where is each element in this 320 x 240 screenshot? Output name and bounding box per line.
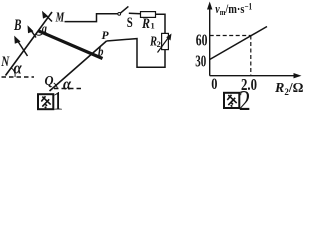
angle alpha at N: label <box>14 59 23 78</box>
graph y-axis <box>207 2 212 76</box>
label S <box>127 15 133 31</box>
rheostat R2 arrow <box>158 34 172 53</box>
rail MN (inclined rail) <box>6 12 53 76</box>
wire from M to switch <box>65 14 118 22</box>
wire R1 to right corner and down <box>156 14 166 33</box>
svg-text:2: 2 <box>239 85 251 111</box>
svg-text:P: P <box>102 29 110 42</box>
B field arrow 3 <box>42 11 52 22</box>
x tick label 2.0 <box>241 75 257 94</box>
angle alpha at N: arc <box>11 68 15 77</box>
svg-text:R: R <box>141 16 150 32</box>
svg-text:α: α <box>63 74 72 93</box>
angle alpha at Q: label <box>63 74 72 93</box>
svg-text:30: 30 <box>195 52 206 71</box>
label b (rod end on rail PQ) <box>98 44 104 59</box>
wire switch to R1 <box>129 12 141 15</box>
B field arrow 1 <box>14 36 27 56</box>
graph line v vs R2 <box>210 27 267 60</box>
y tick label 60 <box>196 31 208 50</box>
origin label 0 <box>211 76 217 93</box>
label R2 <box>149 35 161 50</box>
label a (rod end on rail MN) <box>42 20 48 35</box>
label R1 <box>141 16 155 32</box>
svg-text:α: α <box>14 59 23 78</box>
graph x-axis <box>210 73 302 78</box>
label P <box>102 29 110 42</box>
switch S contact circle <box>118 13 121 16</box>
svg-text:60: 60 <box>196 31 208 50</box>
switch S blade <box>121 6 129 12</box>
label M <box>55 11 65 26</box>
svg-text:S: S <box>127 15 133 31</box>
label N <box>1 54 10 70</box>
caption 1 <box>52 88 63 116</box>
rail PQ (inclined rail) <box>50 41 107 91</box>
y axis label v_m/m.s^-1 <box>215 2 252 18</box>
caption 图2 glyph box <box>224 93 239 108</box>
dashed horizontal at 60 <box>210 35 251 37</box>
angle alpha at Q: arc <box>54 83 58 89</box>
label B <box>13 17 21 34</box>
svg-text:Q: Q <box>45 74 54 89</box>
label Q <box>45 74 54 89</box>
svg-text:M: M <box>55 11 65 26</box>
rod ab (conducting rod) <box>38 31 102 59</box>
svg-text:R2/Ω: R2/Ω <box>274 80 304 97</box>
y tick label 30 <box>195 52 206 71</box>
svg-text:2: 2 <box>157 39 161 49</box>
svg-text:1: 1 <box>151 21 155 31</box>
angle alpha at N: dashed horizontal <box>2 76 35 78</box>
svg-text:0: 0 <box>211 76 217 93</box>
wire from P around bottom to R2 <box>107 39 166 68</box>
angle alpha at Q: dashed horizontal <box>54 88 81 90</box>
dashed vertical at 2.0 <box>250 36 252 76</box>
resistor R1 box <box>141 12 156 18</box>
svg-text:1: 1 <box>52 88 63 111</box>
svg-text:b: b <box>98 44 104 59</box>
caption 2 <box>239 85 251 116</box>
svg-text:N: N <box>1 54 10 70</box>
caption 图1 glyph box <box>38 94 53 109</box>
x axis label R2/Ohm <box>274 80 304 97</box>
rheostat R2 box <box>162 33 169 49</box>
angle arc at a <box>36 33 43 36</box>
svg-text:B: B <box>13 17 21 34</box>
B field arrow 2 <box>28 25 37 37</box>
